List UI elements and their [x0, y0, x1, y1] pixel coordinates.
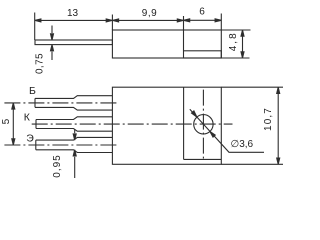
front view tab bottom edge — [184, 158, 222, 160]
dimension 4,8 line — [241, 30, 244, 58]
mounting hole — [194, 115, 213, 134]
pin К label — [24, 112, 31, 124]
dimension 5 label — [1, 118, 12, 124]
front view body — [112, 87, 221, 164]
svg-text:∅3,6: ∅3,6 — [231, 139, 254, 150]
svg-text:0,95: 0,95 — [52, 154, 63, 177]
dimension 13 extension line left — [34, 13, 36, 41]
hole vertical centerline — [202, 90, 204, 159]
svg-text:К: К — [24, 112, 31, 124]
dimension 9,9 extension line (x=112.4 above body) — [111, 15, 113, 31]
pin Э label — [26, 132, 34, 144]
dimension 10,7 line — [277, 87, 280, 164]
dimension 0,95 upper arrow — [73, 130, 76, 141]
svg-text:0,75: 0,75 — [35, 53, 46, 74]
dimension 0,75 label — [35, 53, 46, 74]
pin Б centerline — [4, 102, 119, 104]
dimension 10,7 top extension — [221, 86, 283, 88]
svg-text:9,9: 9,9 — [142, 8, 157, 19]
pin Э centerline — [4, 144, 119, 146]
svg-text:10,7: 10,7 — [263, 107, 274, 131]
dimension 0,95 label — [52, 154, 63, 177]
dimension 6 extension line (x=183.5) — [183, 16, 185, 51]
dimension 0,75 upper arrow — [51, 26, 54, 41]
dimension 9,9 label — [142, 8, 157, 19]
svg-text:13: 13 — [67, 8, 79, 19]
dimension 0,75 lower arrow — [51, 45, 54, 60]
dimension 10,7 label — [263, 107, 274, 131]
svg-text:6: 6 — [199, 7, 205, 18]
hole leader line — [190, 109, 264, 152]
svg-text:4,8: 4,8 — [228, 31, 239, 51]
dimension 13 line — [35, 19, 113, 22]
pin Э outline — [36, 137, 113, 152]
svg-text:Э: Э — [26, 132, 34, 144]
dimension 4,8 top extension — [221, 29, 250, 31]
dimension 10,7 bottom extension — [221, 163, 283, 165]
dimension 9,9 line — [112, 19, 183, 22]
top view body — [112, 30, 221, 58]
top view lead bar — [35, 40, 112, 45]
dimension 4,8 label — [228, 31, 239, 51]
svg-text:Б: Б — [29, 85, 36, 97]
dimension 5 line — [12, 103, 15, 145]
front view tab left edge — [183, 87, 185, 159]
svg-text:5: 5 — [1, 118, 12, 124]
top view tab step — [184, 51, 222, 58]
dimension 6 extension line right (x=221.3 above body) — [220, 14, 222, 31]
dimension 13 label — [67, 8, 79, 19]
pin Б outline — [35, 96, 112, 110]
hole diameter label — [231, 139, 254, 150]
pin К / hole axis centerline — [32, 123, 233, 125]
dimension 4,8 bottom extension — [221, 57, 249, 59]
pin К outline — [36, 117, 112, 131]
dimension 6 label — [199, 7, 205, 18]
dimension 6 line — [184, 19, 222, 22]
dimension 0,95 lower arrow — [73, 150, 76, 178]
pin Б label — [29, 85, 36, 97]
